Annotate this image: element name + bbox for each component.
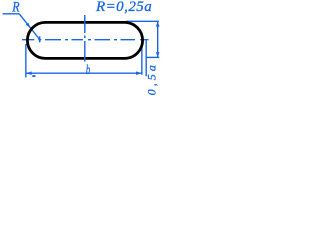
0,5a top extension line bbox=[126, 20, 159, 22]
auxiliary vertical line at end of centerline bbox=[145, 40, 147, 76]
0,5a bottom extension line bbox=[146, 56, 159, 58]
R leader arrowhead bbox=[26, 23, 31, 28]
0,5a dimension line bbox=[157, 21, 159, 57]
0,5a down arrowhead bbox=[156, 52, 160, 57]
svg-text:R=0,25a: R=0,25a bbox=[95, 0, 152, 15]
svg-text:b: b bbox=[86, 62, 90, 78]
vertical centerline overlay crossing slot edges bbox=[84, 19, 86, 62]
slot outline (stadium) bbox=[27, 22, 142, 58]
R leader diagonal bbox=[19, 14, 40, 40]
b dimension line bbox=[26, 72, 142, 74]
left arc center tick bbox=[39, 36, 41, 42]
b left arrowhead bbox=[26, 71, 32, 75]
horizontal centerline (dash-dot) bbox=[22, 39, 149, 41]
0,5a up arrowhead bbox=[156, 21, 160, 26]
b dimension left extension line bbox=[25, 44, 27, 78]
b right arrowhead bbox=[136, 71, 142, 75]
dot segment at left arc center bbox=[38, 39, 41, 41]
b dimension right extension line bbox=[141, 46, 143, 75]
svg-text:0,5a: 0,5a bbox=[145, 62, 159, 95]
R leader shelf bbox=[3, 13, 20, 15]
svg-text:R: R bbox=[11, 0, 20, 15]
artifact dash below dimension line bbox=[32, 75, 35, 77]
vertical centerline (dash-dot) bbox=[84, 15, 86, 62]
